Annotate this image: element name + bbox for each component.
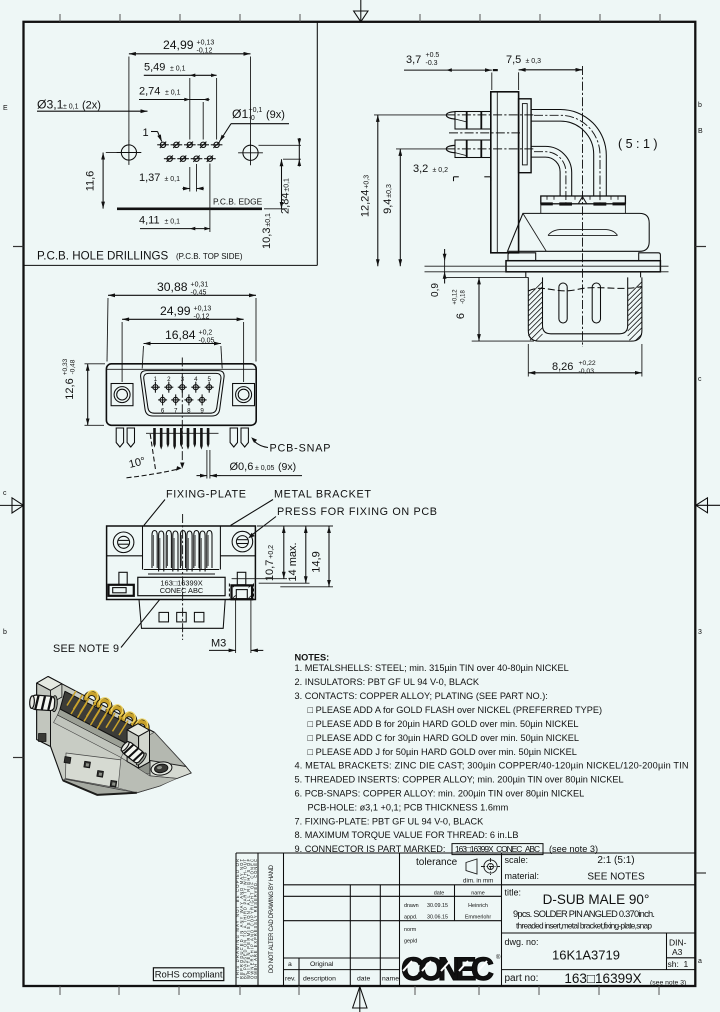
svg-text:DO NOT ALTER CAD DRAWING BY HA: DO NOT ALTER CAD DRAWING BY HAND xyxy=(269,864,275,973)
svg-text:24,99: 24,99 xyxy=(163,38,194,52)
base plate xyxy=(506,261,660,272)
svg-text:± 0,3: ± 0,3 xyxy=(526,58,542,65)
latch left xyxy=(109,585,134,596)
svg-text:gepld: gepld xyxy=(404,939,417,945)
CONEC logo xyxy=(401,951,501,987)
svg-text:± 0,1: ± 0,1 xyxy=(165,176,181,183)
svg-text:2,74: 2,74 xyxy=(139,86,160,98)
svg-text:( 5 : 1 ): ( 5 : 1 ) xyxy=(618,137,658,151)
svg-text:CONEC ABC: CONEC ABC xyxy=(160,586,204,595)
svg-text:M3: M3 xyxy=(211,638,226,650)
svg-text:5: 5 xyxy=(207,376,211,383)
pcb snap left xyxy=(116,428,134,447)
svg-text:Ø3,1: Ø3,1 xyxy=(37,98,64,112)
svg-text:-0.3: -0.3 xyxy=(426,60,438,67)
ext 6 top xyxy=(446,276,528,278)
iso dark insulator band xyxy=(60,691,133,744)
solder pins standing rank back xyxy=(152,531,212,569)
svg-text:P.C.B. HOLE DRILLINGS: P.C.B. HOLE DRILLINGS xyxy=(37,250,168,263)
label metal bracket xyxy=(231,489,372,526)
dim 6 xyxy=(453,277,535,341)
svg-text:®: ® xyxy=(496,954,501,961)
marking plate xyxy=(138,577,225,595)
pins row2 front xyxy=(158,394,207,405)
svg-text:(see note 3): (see note 3) xyxy=(650,980,686,987)
svg-text:7. FIXING-PLATE: PBT GF UL 94: 7. FIXING-PLATE: PBT GF UL 94 V-0, BLACK xyxy=(295,816,485,826)
shell lower inner xyxy=(543,277,628,333)
bent pin inner xyxy=(531,146,572,196)
dim 9,4 xyxy=(382,149,400,266)
dim 10,7 xyxy=(232,526,333,581)
projection symbol xyxy=(466,858,500,875)
left centering mark xyxy=(0,498,24,513)
pin top centerline xyxy=(374,114,446,116)
10deg construction xyxy=(127,434,185,478)
top centering mark xyxy=(354,0,368,22)
svg-text:description: description xyxy=(303,976,336,983)
shell body side xyxy=(508,213,650,251)
svg-text:1: 1 xyxy=(154,376,158,383)
TITLEBLOCK xyxy=(153,853,695,987)
svg-text:SEE NOTES: SEE NOTES xyxy=(587,872,645,883)
svg-text:appd.: appd. xyxy=(404,914,418,920)
insulator plate xyxy=(541,196,626,213)
dim 8,26 xyxy=(528,344,642,377)
iso square hole 1 xyxy=(84,761,91,768)
svg-text:dim. in mm: dim. in mm xyxy=(463,878,493,885)
m3 stub right xyxy=(237,572,246,585)
dim 2,74 xyxy=(139,78,210,140)
svg-text:163□16399X: 163□16399X xyxy=(564,971,641,986)
iso bottom shadow xyxy=(63,781,137,795)
solder pins below xyxy=(146,428,219,450)
iso left tower xyxy=(37,677,62,747)
D-shell inner xyxy=(144,373,221,413)
svg-text:9. CONNECTOR IS PART MARKED:: 9. CONNECTOR IS PART MARKED: xyxy=(295,844,446,854)
svg-text:part no:: part no: xyxy=(505,973,539,984)
svg-text:(9x): (9x) xyxy=(266,109,285,121)
svg-text:threaded insert,metal bracket,: threaded insert,metal bracket,fixing-pla… xyxy=(516,921,652,931)
svg-text:E: E xyxy=(3,105,8,112)
bent pin outer xyxy=(531,110,606,197)
iso shadow under right tower xyxy=(139,762,154,775)
top edge ruler ticks xyxy=(60,14,660,22)
shell neck xyxy=(526,272,641,278)
dim 3,7 xyxy=(404,52,498,90)
iso thin gold pins xyxy=(67,691,128,735)
svg-text:16,84: 16,84 xyxy=(165,328,196,342)
svg-text:name: name xyxy=(382,976,399,983)
svg-text:+0,2: +0,2 xyxy=(199,330,213,337)
svg-text:Emmerlohr: Emmerlohr xyxy=(465,914,492,920)
svg-text:□ PLEASE ADD B for 20µin HARD: □ PLEASE ADD B for 20µin HARD GOLD over … xyxy=(308,719,579,729)
svg-text:-0,18: -0,18 xyxy=(461,290,467,304)
svg-text:1,37: 1,37 xyxy=(139,172,160,184)
svg-text:name: name xyxy=(471,891,485,897)
svg-text:norm: norm xyxy=(404,927,417,933)
svg-text:3,2: 3,2 xyxy=(413,163,428,175)
svg-text:+0,22: +0,22 xyxy=(579,360,596,367)
svg-text:GMBH ARE EXPRESSLY RESERVED. C: GMBH ARE EXPRESSLY RESERVED. CONEC xyxy=(253,859,258,979)
svg-text:3: 3 xyxy=(698,629,702,636)
dim m3 xyxy=(209,600,263,654)
pin hatching xyxy=(153,535,208,569)
svg-text:4: 4 xyxy=(194,376,198,383)
VIEW-ISO xyxy=(29,677,191,795)
dim 30,88 xyxy=(107,280,256,362)
svg-text:date: date xyxy=(357,976,370,983)
svg-text:date: date xyxy=(434,891,445,897)
main vertical centerline xyxy=(582,66,584,347)
pcb lines xyxy=(425,266,669,272)
dim 14 max xyxy=(259,526,310,583)
iso base right side shade xyxy=(118,758,177,793)
iso square hole left xyxy=(64,757,71,764)
label dia 1 xyxy=(220,107,290,142)
m3 insert block xyxy=(229,584,253,600)
screw right xyxy=(232,531,253,552)
pcb edge xyxy=(117,197,263,209)
svg-text:(2x): (2x) xyxy=(82,100,101,112)
svg-text:+0,31: +0,31 xyxy=(191,282,209,289)
revision row xyxy=(285,961,399,983)
svg-text:5. THREADED INSERTS: COPPER AL: 5. THREADED INSERTS: COPPER ALLOY; min. … xyxy=(295,775,624,785)
svg-text:30,88: 30,88 xyxy=(157,280,188,294)
dim 7,5 xyxy=(506,54,583,90)
pin holes row2 xyxy=(164,156,216,162)
svg-text:title:: title: xyxy=(505,888,522,898)
svg-text:+0,1: +0,1 xyxy=(249,107,263,114)
svg-text:Heinrich: Heinrich xyxy=(468,903,488,909)
iso gold bent pins xyxy=(85,689,149,732)
svg-text:FIXING-PLATE: FIXING-PLATE xyxy=(166,489,246,501)
iso square hole 3 xyxy=(110,780,117,787)
svg-text:9: 9 xyxy=(200,407,204,414)
flange feet xyxy=(491,253,661,261)
svg-text:8: 8 xyxy=(187,407,191,414)
svg-text:1. METALSHELLS: STEEL; min. 31: 1. METALSHELLS: STEEL; min. 315µin TIN o… xyxy=(295,663,569,673)
svg-text:± 0,2: ± 0,2 xyxy=(433,167,449,174)
svg-text:□ PLEASE ADD C for 30µin HARD: □ PLEASE ADD C for 30µin HARD GOLD over … xyxy=(308,733,579,743)
right edge fold marks xyxy=(695,247,706,874)
svg-text:PCB-HOLE: ø3,1 +0,1; PCB THICK: PCB-HOLE: ø3,1 +0,1; PCB THICKNESS 1.6mm xyxy=(308,802,509,812)
drill view box xyxy=(316,22,318,266)
D-shell outer xyxy=(141,371,225,416)
svg-text:3. CONTACTS: COPPER ALLOY; PLA: 3. CONTACTS: COPPER ALLOY; PLATING (SEE … xyxy=(295,691,548,701)
dim 14,9 xyxy=(280,526,333,587)
front centerline xyxy=(181,358,183,463)
svg-text:± 0,1: ± 0,1 xyxy=(165,219,181,226)
svg-text:P.C.B. EDGE: P.C.B. EDGE xyxy=(213,197,263,207)
svg-text:± 0,1: ± 0,1 xyxy=(165,90,181,97)
svg-text:(see note 3): (see note 3) xyxy=(549,844,598,854)
svg-text:14,9: 14,9 xyxy=(311,551,323,572)
pin bottom xyxy=(446,140,491,158)
pin holes row1 xyxy=(157,142,222,148)
svg-text:11,6: 11,6 xyxy=(85,171,97,192)
bracket plate edges xyxy=(107,526,256,570)
svg-text:2: 2 xyxy=(167,376,171,383)
svg-text:+0,13: +0,13 xyxy=(197,40,215,47)
titleblock grid xyxy=(236,853,695,986)
svg-text:+0,12: +0,12 xyxy=(453,289,459,305)
svg-text:-0,03: -0,03 xyxy=(579,368,595,375)
bottom centering mark xyxy=(353,986,367,1012)
flange plate xyxy=(491,92,519,253)
bottom edge ruler ticks xyxy=(60,986,659,995)
svg-text:7,5: 7,5 xyxy=(506,54,521,66)
left edge fold marks xyxy=(13,247,24,758)
svg-text:4. METAL BRACKETS: ZINC DIE CA: 4. METAL BRACKETS: ZINC DIE CAST; 300µin… xyxy=(295,761,689,771)
svg-text:16K1A3719: 16K1A3719 xyxy=(552,948,620,963)
iso shell front strip xyxy=(54,715,126,758)
pin numbers row2 xyxy=(161,407,205,414)
dim 3,2 xyxy=(413,163,491,181)
svg-text:(P.C.B. TOP SIDE): (P.C.B. TOP SIDE) xyxy=(176,252,243,261)
label dia 3,1 xyxy=(37,98,148,112)
dim 5,49 xyxy=(144,62,217,140)
svg-text:B: B xyxy=(698,128,703,135)
svg-text:0,9: 0,9 xyxy=(430,283,441,297)
svg-text:24,99: 24,99 xyxy=(160,304,191,318)
svg-text:4,11: 4,11 xyxy=(139,215,160,227)
iso snap hole boss xyxy=(150,760,173,776)
svg-text:9pcs. SOLDER PIN ANGLED 0.370i: 9pcs. SOLDER PIN ANGLED 0.370inch. xyxy=(513,909,655,919)
pin numbers row1 xyxy=(154,376,212,383)
svg-text:PRESS FOR FIXING ON PCB: PRESS FOR FIXING ON PCB xyxy=(277,506,437,518)
iso connector silhouette xyxy=(37,677,190,795)
svg-text:b: b xyxy=(3,629,7,636)
bracket centerline xyxy=(182,514,184,640)
screw insert right xyxy=(233,384,255,406)
svg-text:5,49: 5,49 xyxy=(144,62,165,74)
solder pins standing rank front xyxy=(159,531,206,572)
svg-text:rev.: rev. xyxy=(285,976,296,983)
VIEW-FRONT xyxy=(62,280,331,479)
svg-text:Ø0,6: Ø0,6 xyxy=(230,461,254,473)
svg-text:6: 6 xyxy=(455,313,467,319)
svg-text:-0,48: -0,48 xyxy=(70,359,77,374)
dim 11,6 xyxy=(85,153,118,209)
iso ear plate xyxy=(150,761,191,779)
svg-text:8. MAXIMUM TORQUE VALUE FOR TH: 8. MAXIMUM TORQUE VALUE FOR THREAD: 6 in… xyxy=(295,830,519,840)
iso left tower slot xyxy=(39,734,47,742)
svg-text:± 0,1: ± 0,1 xyxy=(63,104,79,111)
dim 0,9 xyxy=(430,249,445,297)
svg-text:(9x): (9x) xyxy=(278,461,296,473)
svg-text:b: b xyxy=(698,102,702,109)
VIEW-SIDE xyxy=(360,52,669,377)
label press for fixing on pcb xyxy=(248,506,437,538)
svg-text:PCB-SNAP: PCB-SNAP xyxy=(270,443,331,455)
svg-text:-0: -0 xyxy=(249,115,255,122)
svg-text:12,6: 12,6 xyxy=(64,378,76,399)
date/name table xyxy=(404,891,491,945)
svg-text:METAL BRACKET: METAL BRACKET xyxy=(274,489,371,501)
svg-text:RoHS compliant: RoHS compliant xyxy=(155,969,223,980)
iso right tower xyxy=(127,724,149,768)
svg-text:+0,33: +0,33 xyxy=(62,358,69,375)
svg-text:2:1 (5:1): 2:1 (5:1) xyxy=(597,855,634,866)
dim 12,24 xyxy=(360,115,378,266)
svg-text:30.09.15: 30.09.15 xyxy=(427,903,448,909)
svg-text:SEE NOTE 9: SEE NOTE 9 xyxy=(53,643,119,655)
iso base bottom face xyxy=(63,779,137,795)
svg-text:+0.5: +0.5 xyxy=(426,52,440,59)
svg-text:tolerance: tolerance xyxy=(416,857,458,868)
pin slots xyxy=(559,283,601,323)
iso square hole 2 xyxy=(97,771,104,778)
iso right screw xyxy=(119,739,148,766)
pins row1 front xyxy=(151,382,214,393)
svg-text:6. PCB-SNAPS: COPPER ALLOY: mi: 6. PCB-SNAPS: COPPER ALLOY: min. 200µin … xyxy=(295,789,585,799)
svg-text:sh: 1: sh: 1 xyxy=(668,959,689,969)
svg-text:D-SUB MALE 90°: D-SUB MALE 90° xyxy=(543,892,650,907)
NOTES xyxy=(295,653,689,855)
hatch right wall xyxy=(628,282,642,341)
iso right slope face xyxy=(150,732,186,770)
pin1 label xyxy=(143,127,162,142)
bracket body outline xyxy=(107,526,256,600)
svg-text:c: c xyxy=(698,376,702,383)
label pcb-snap xyxy=(251,437,330,454)
svg-text:A3: A3 xyxy=(672,947,683,957)
shell lower outer xyxy=(528,277,642,341)
mid centerline xyxy=(449,132,520,134)
svg-text:2. INSULATORS: PBT GF UL 94 V-: 2. INSULATORS: PBT GF UL 94 V-0, BLACK xyxy=(295,677,480,687)
svg-text:8,26: 8,26 xyxy=(552,361,573,373)
svg-text:1: 1 xyxy=(143,127,149,139)
label fixing-plate xyxy=(144,489,246,526)
square holes xyxy=(159,612,204,622)
svg-text:Original: Original xyxy=(310,961,334,968)
svg-text:drawn: drawn xyxy=(404,903,419,909)
svg-text:material:: material: xyxy=(505,871,540,881)
svg-text:7: 7 xyxy=(174,407,178,414)
hole 3.1 right xyxy=(238,140,263,165)
copyright vertical text xyxy=(235,859,258,979)
right centering mark xyxy=(695,498,720,513)
svg-text:163□16399X_CONEC_ABC: 163□16399X_CONEC_ABC xyxy=(455,844,540,854)
svg-text:a: a xyxy=(288,961,292,968)
svg-text:□ PLEASE ADD J for 50µin HARD: □ PLEASE ADD J for 50µin HARD GOLD over … xyxy=(308,747,577,757)
dim 24,99 front xyxy=(122,304,244,382)
dim 2,84 xyxy=(259,138,302,214)
dim 10,3 xyxy=(261,159,287,249)
shell trapezoid bottom xyxy=(139,600,225,629)
svg-text:Ø1: Ø1 xyxy=(232,107,248,121)
svg-text:scale:: scale: xyxy=(505,855,529,865)
pin top xyxy=(446,112,491,130)
svg-text:□ PLEASE ADD A for GOLD FLASH: □ PLEASE ADD A for GOLD FLASH over NICKE… xyxy=(308,705,603,715)
screw left xyxy=(113,532,134,553)
dim 1,37 xyxy=(139,164,204,192)
VIEW-BRACKET xyxy=(53,489,437,656)
connector body front xyxy=(106,364,256,426)
iso base top face xyxy=(66,753,127,788)
dim 16,84 xyxy=(142,328,222,369)
pin bottom centerline xyxy=(396,148,446,150)
svg-text:DIN-: DIN- xyxy=(669,938,687,948)
fixing plate under pins xyxy=(144,570,220,575)
label dia 0,6 xyxy=(197,450,303,479)
svg-text:14 max.: 14 max. xyxy=(287,542,299,581)
svg-text:± 0,05: ± 0,05 xyxy=(255,465,275,472)
screw insert left xyxy=(111,384,133,406)
pcb snap right xyxy=(230,428,248,447)
label see note 9 xyxy=(53,600,160,655)
dim 4,11 xyxy=(139,164,210,233)
iso band lower dark edge xyxy=(58,709,128,750)
hole 3.1 left xyxy=(117,140,142,165)
insert block xyxy=(519,99,532,173)
svg-text:3,7: 3,7 xyxy=(406,54,421,66)
RoHS compliant box xyxy=(153,968,223,981)
svg-text:+0,13: +0,13 xyxy=(194,306,212,313)
dim 24,99 top xyxy=(129,38,251,141)
svg-text:NOTES:: NOTES: xyxy=(295,653,330,663)
svg-text:30.06.15: 30.06.15 xyxy=(427,914,448,920)
svg-text:dwg. no:: dwg. no: xyxy=(505,937,539,947)
break wave xyxy=(528,287,642,292)
VIEW-DRILL xyxy=(24,22,318,266)
note 9 marking box xyxy=(452,844,543,855)
iso left screw xyxy=(29,694,58,712)
latch stub left xyxy=(119,572,127,585)
svg-text:c: c xyxy=(3,490,7,497)
shell inner dome xyxy=(548,229,618,235)
dim 12,6 xyxy=(62,358,105,425)
svg-text:6: 6 xyxy=(161,407,165,414)
svg-text:± 0,1: ± 0,1 xyxy=(170,66,186,73)
svg-text:a: a xyxy=(698,958,702,965)
hatch left wall xyxy=(528,282,542,341)
